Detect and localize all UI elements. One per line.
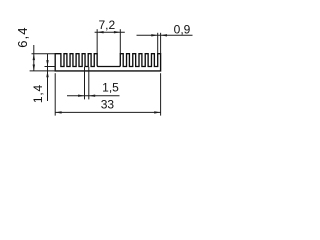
arrow 1,4 down (outside, above base top) [46,60,48,66]
dim 7,2: left extension line [96,29,98,54]
arrow 33 left [55,111,61,113]
arrow 0,9 left (outside pointing right) [151,34,157,36]
svg-text:6,4: 6,4 [15,26,30,47]
arrow 6,4 down [33,65,35,71]
arrow 0,9 right (outside pointing left) [161,34,167,36]
dim 7,2: dimension line [95,31,125,33]
dim 1,5: right extension line [88,67,90,100]
dim 1,5: dimension line with shelf [67,95,120,97]
svg-text:7,2: 7,2 [98,18,115,32]
dim 1,4: base-top extension line [45,66,56,68]
arrow 6,4 up [33,54,35,60]
dim 6,4: top extension line [32,53,56,55]
dim 33: left extension line [54,73,56,115]
heatsink profile outline [55,54,160,71]
arrow 1,4 up (outside, below base bottom) [46,71,48,77]
arrow 1,5 left (outside pointing right) [78,95,84,97]
dim 7,2: right extension line [119,29,121,54]
arrow 33 right [154,111,160,113]
dim 6,4: dimension line [33,45,35,71]
dim 6,4: bottom extension line (base bottom extended left) [30,70,56,72]
dim 0,9: right extension line [160,33,162,54]
dim 0,9: dimension line with shelf [137,34,193,36]
svg-text:1,4: 1,4 [31,84,45,103]
dim 0,9: left extension line [157,33,159,54]
dim 1,4: dimension line [47,54,49,101]
arrow 1,5 right (outside pointing left) [89,95,95,97]
arrow 7,2 right [114,31,120,33]
svg-text:0,9: 0,9 [174,23,191,37]
svg-text:1,5: 1,5 [102,80,119,94]
svg-text:33: 33 [101,98,115,112]
dim 1,5: left extension line [84,67,86,100]
arrow 7,2 left [97,31,103,33]
dim 33: dimension line [55,111,160,113]
dim 33: right extension line [160,73,162,115]
